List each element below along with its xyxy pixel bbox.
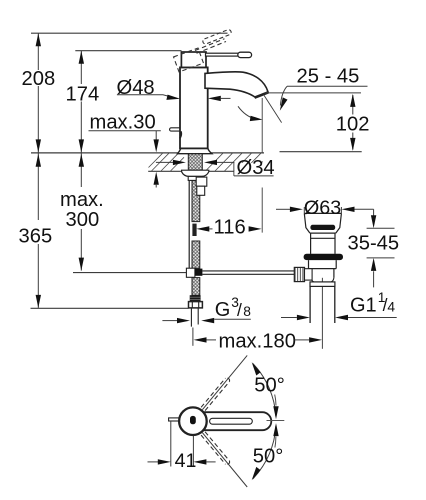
dashed cap raised position (174, 48, 204, 72)
dashed paddle raised position (202, 29, 232, 45)
svg-text:25 - 45: 25 - 45 (297, 65, 360, 87)
svg-text:Ø34: Ø34 (237, 157, 275, 179)
top view: lever capsule (195, 412, 271, 430)
svg-text:50°: 50° (254, 375, 285, 397)
top view: faucet body circle (179, 407, 207, 435)
arrow down 208 at countertop (36, 139, 41, 152)
svg-text:/: / (237, 300, 242, 320)
aerator face (255, 92, 269, 97)
drain lower body (309, 260, 337, 278)
dimension G1 1/4 (281, 317, 297, 319)
svg-text:116: 116 (214, 217, 246, 239)
top view: pop-up tab (169, 418, 182, 421)
dimension G3/8 arrows (162, 320, 177, 322)
drain actuator joint (305, 269, 313, 280)
svg-text:102: 102 (336, 114, 370, 136)
pop-up knob hook (180, 131, 182, 138)
pop-up knob tab on body left (170, 128, 181, 131)
arc arrowhead at horizontal upper (273, 406, 278, 419)
hose connector dark piece (192, 224, 196, 236)
svg-text:300: 300 (66, 209, 100, 231)
arc arrowhead at 50deg line (250, 362, 262, 376)
svg-text:max.180: max.180 (219, 330, 296, 352)
arrow down 365 bottom (36, 295, 41, 308)
hose end thread dark (190, 295, 201, 301)
countertop hatching right (206, 153, 263, 171)
svg-text:365: 365 (19, 226, 53, 248)
top view: swivel arc lower (253, 426, 276, 479)
faucet body (180, 67, 208, 148)
dimension line 174/max300 vertical (80, 51, 82, 271)
svg-text:50°: 50° (253, 445, 284, 467)
cartridge cap (181, 52, 206, 67)
svg-text:Ø48: Ø48 (117, 77, 155, 99)
drain upper body (310, 233, 336, 254)
spout (205, 72, 268, 97)
svg-text:208: 208 (22, 68, 56, 90)
flexible supply hose segment 1 (192, 181, 200, 222)
countertop surface line (31, 152, 264, 154)
drain centerline (321, 278, 323, 349)
mounting bolt upper (196, 177, 207, 186)
top view: dashed lever lower (201, 432, 229, 465)
dimension 35-45 (373, 209, 375, 287)
flexible supply hose segment 2 (192, 241, 200, 268)
arc arrowhead at 50deg line lower (250, 466, 262, 480)
dimension line 208/365 vertical (37, 33, 39, 308)
svg-text:8: 8 (243, 304, 251, 319)
drain actuator knurled knob (294, 267, 304, 281)
mounting bolt lower (197, 186, 205, 195)
top reference line (lever raised height) (31, 32, 228, 34)
svg-text:174: 174 (66, 84, 100, 106)
svg-text:max.: max. (60, 189, 104, 211)
base locknut (182, 170, 209, 176)
drain plug cap dark (310, 225, 335, 230)
svg-text:max.30: max.30 (90, 111, 156, 133)
top view: 50deg line lower (202, 433, 247, 487)
reference line cap top (174) (75, 50, 181, 52)
svg-text:G: G (215, 299, 231, 321)
horizontal pop-up rod to drain (202, 271, 294, 274)
shank collar below nut (188, 176, 203, 180)
countertop hatching left (149, 153, 185, 171)
faucet centerline (193, 140, 195, 171)
pop-up vertical rod (188, 181, 190, 269)
G3/8 threaded tail (191, 308, 198, 327)
arrow up 208 top (36, 33, 41, 46)
svg-text:4: 4 (387, 300, 395, 315)
dashed lever raised position (195, 39, 226, 54)
leader 50 lower (275, 437, 276, 448)
hose end reference line (365 bottom) (31, 307, 189, 309)
arrow up max300 below countertop (79, 154, 84, 167)
mounting shank thread in countertop (188, 153, 202, 170)
arrow up 365 below countertop (36, 154, 41, 167)
hose end hex nut G3/8 (189, 302, 203, 308)
pop-up rod reference line (max300 bottom) (73, 272, 186, 274)
top view: 50deg line upper (202, 355, 247, 409)
top view: dashed lever upper (201, 378, 229, 411)
drain tailpipe (310, 286, 335, 323)
arrow down 174 at countertop (79, 139, 84, 152)
top view: cartridge key blob (190, 416, 196, 424)
svg-text:Ø63: Ø63 (304, 197, 341, 219)
lever handle bar (horizontal) (206, 53, 240, 56)
dimension Ø63 (276, 208, 290, 210)
leader 50 upper (275, 395, 276, 406)
lever paddle tip (238, 52, 252, 57)
faucet base foot (178, 148, 212, 154)
arc arrowhead at horizontal lower (273, 423, 278, 436)
dimension 102 (352, 95, 354, 150)
svg-text:G1: G1 (350, 294, 377, 316)
flexible supply hose segment 3 (192, 278, 200, 296)
dimension max.180 (192, 328, 194, 346)
dimension 41 arrows (148, 461, 159, 463)
top view: lever slot (210, 418, 253, 424)
spray direction slant line (264, 95, 282, 123)
drain o-ring flange dark (304, 254, 343, 260)
svg-text:35-45: 35-45 (348, 232, 400, 254)
drain tail flange band (310, 282, 335, 287)
countertop underside line (148, 170, 234, 172)
arrow down max300 bottom (79, 258, 84, 271)
svg-text:41: 41 (175, 450, 197, 472)
dimension 116 (196, 226, 209, 231)
pop-up rod coupling dark block (195, 269, 203, 276)
spout outlet level line (264, 92, 361, 94)
top view: horizontal centerline (267, 420, 285, 422)
aerator swivel arc arrow (238, 106, 257, 119)
dimension Ø34 (156, 161, 173, 163)
spout outlet extension line (261, 98, 263, 233)
top view: swivel arc upper (253, 364, 276, 417)
drain bell curve (311, 278, 334, 282)
pop-up rod coupling left (186, 268, 195, 277)
dimension 41 extension lines (171, 421, 194, 467)
drain flange outline (304, 213, 341, 233)
arrow up 174 top (79, 51, 84, 64)
countertop surface extension right (102 ref) (280, 151, 362, 153)
